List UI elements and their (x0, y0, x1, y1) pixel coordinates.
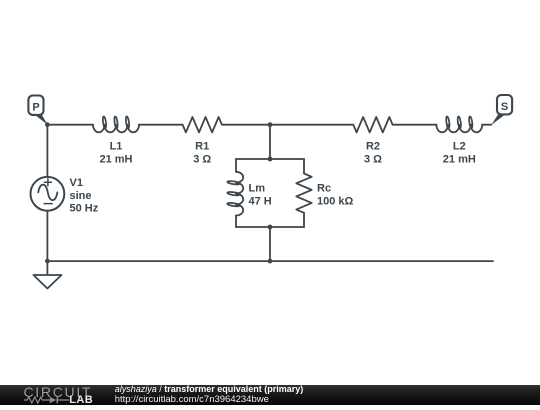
wire: right branch bottom stub (303, 213, 305, 227)
svg-text:47 H: 47 H (249, 196, 272, 208)
footer credit text (115, 385, 304, 404)
wire: parallel box top (236, 158, 304, 160)
resistor R1 (183, 117, 222, 132)
resistor R2 (353, 117, 392, 132)
wire: node A down to V1 top (46, 125, 48, 177)
wire: right branch top stub (303, 159, 305, 174)
wire: node B to R2 (270, 124, 353, 126)
ground (46, 261, 48, 275)
inductor L1 (93, 125, 139, 133)
wire: parallel box bottom (236, 226, 304, 228)
svg-text:P: P (32, 101, 39, 113)
svg-text:Lm: Lm (249, 183, 266, 195)
svg-text:R1: R1 (195, 140, 209, 152)
svg-text:S: S (501, 101, 508, 113)
CircuitLab logo resistor-diode symbol (20, 396, 70, 406)
V1 minus sign (44, 203, 52, 205)
resistor Rc (296, 174, 311, 213)
wire: L1 to R1 (139, 124, 183, 126)
voltage source V1 (31, 177, 65, 211)
wire: ground rail (47, 260, 493, 262)
CircuitLab logo text CIRCUIT (24, 385, 93, 399)
V1 sine wave (38, 185, 57, 201)
junction ground rail left (45, 259, 50, 264)
wire: R1 to node B (222, 124, 270, 126)
svg-text:21 mH: 21 mH (99, 153, 132, 165)
svg-text:21 mH: 21 mH (443, 153, 476, 165)
wire: node A to L1 (47, 124, 93, 126)
svg-text:sine: sine (70, 190, 92, 202)
inductor L2 (436, 125, 482, 133)
svg-text:L2: L2 (453, 140, 466, 152)
svg-text:3 Ω: 3 Ω (364, 153, 382, 165)
junction box bottom (268, 225, 273, 230)
svg-text:V1: V1 (70, 177, 83, 189)
V1 plus sign (44, 179, 51, 186)
CircuitLab logo text LAB (69, 395, 93, 406)
port S (491, 114, 505, 125)
svg-text:L1: L1 (110, 140, 123, 152)
svg-text:Rc: Rc (317, 183, 331, 195)
node A (45, 122, 50, 127)
wire: parallel box bottom to ground rail (269, 227, 271, 261)
port P (35, 113, 48, 125)
wire: node B down to parallel box top (269, 125, 271, 159)
wire: V1 bottom to ground rail (46, 211, 48, 261)
junction box top (268, 157, 273, 162)
svg-text:50 Hz: 50 Hz (70, 203, 99, 215)
junction ground rail mid (268, 259, 273, 264)
wire: R2 to L2 (393, 124, 437, 126)
svg-text:100 kΩ: 100 kΩ (317, 196, 354, 208)
footer bar (0, 385, 540, 405)
node B (268, 122, 273, 127)
svg-text:R2: R2 (366, 140, 380, 152)
wire: left branch top stub (235, 159, 237, 172)
svg-text:3 Ω: 3 Ω (193, 153, 211, 165)
wire: L2 to port S pin (482, 124, 491, 126)
inductor Lm (236, 172, 243, 216)
wire: left branch bottom stub (235, 216, 237, 228)
